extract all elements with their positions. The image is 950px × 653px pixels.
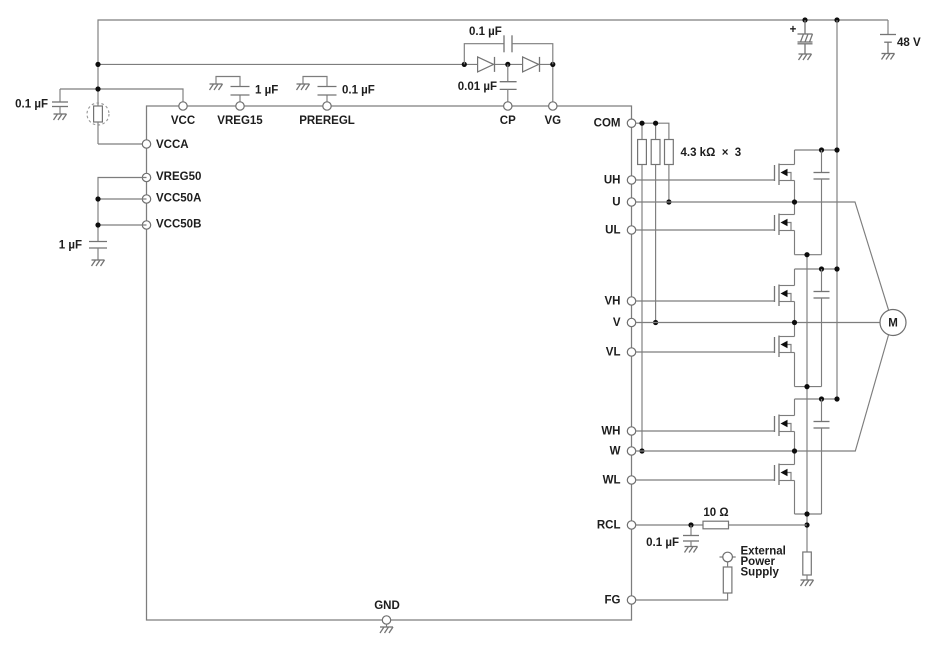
- wire WL gate: [636, 479, 775, 481]
- svg-text:0.1 µF: 0.1 µF: [469, 26, 502, 38]
- wire W bridge bottom: [795, 513, 822, 515]
- wire Q2 source drop: [794, 231, 796, 255]
- node RCL cap: [688, 522, 693, 527]
- pin VL: [627, 348, 635, 356]
- node U phase: [792, 199, 797, 204]
- pin WH: [627, 427, 635, 435]
- node V top rail: [834, 266, 839, 271]
- node W bottom bus: [804, 511, 809, 516]
- wire source return bus: [806, 255, 808, 552]
- svg-text:GND: GND: [374, 600, 400, 612]
- capacitor W bridge snubber: [814, 399, 830, 514]
- pin VREG50: [142, 173, 150, 181]
- pin RCL: [627, 521, 635, 529]
- wire Q6 drain riser: [794, 451, 796, 465]
- node diode 1 anode: [462, 62, 467, 67]
- battery 48 V: [880, 20, 921, 54]
- node U top rail: [834, 147, 839, 152]
- svg-text:M: M: [888, 318, 898, 330]
- pin FG: [627, 596, 635, 604]
- svg-text:VREG50: VREG50: [156, 171, 201, 183]
- wire resistor C lead to U: [668, 165, 670, 203]
- svg-text:VCC50A: VCC50A: [156, 193, 201, 205]
- wire UH gate: [636, 179, 775, 181]
- node V top cap: [819, 266, 824, 271]
- resistor 4.3k B (to V): [651, 140, 660, 165]
- node U top cap: [819, 147, 824, 152]
- wire VH gate: [636, 300, 775, 302]
- ferrite bead (dashed option) on VCCA: [87, 103, 109, 144]
- ground VREG15 cap: [210, 84, 223, 90]
- svg-text:Supply: Supply: [741, 567, 780, 579]
- svg-text:VCC: VCC: [171, 115, 195, 127]
- node resistor C on U line: [666, 199, 671, 204]
- wire Q3 drain riser: [794, 269, 796, 286]
- svg-text:VG: VG: [544, 115, 561, 127]
- ground 0.1 uF VCC: [54, 114, 67, 120]
- ground 1 uF VCC50: [92, 260, 105, 266]
- wire after diode 2 to VG riser: [539, 64, 553, 106]
- wire top supply rail: [98, 20, 888, 106]
- ground RCL cap: [685, 547, 698, 553]
- wire RCL line: [636, 524, 703, 526]
- wire V bridge top: [795, 268, 838, 270]
- pin VCCA: [142, 140, 150, 148]
- pin WL: [627, 476, 635, 484]
- wire VCC50B: [98, 224, 147, 226]
- diode D1: [478, 57, 495, 72]
- wire VCC50A: [98, 198, 147, 200]
- node COM resistor 1: [639, 121, 644, 126]
- node COM resistor 2: [653, 121, 658, 126]
- node W top rail: [834, 396, 839, 401]
- pin VCC: [179, 102, 187, 110]
- IC body outline: [147, 106, 632, 620]
- node W phase: [792, 448, 797, 453]
- ground GND pin: [380, 624, 393, 633]
- svg-text:UL: UL: [605, 225, 620, 237]
- capacitor V bridge snubber: [814, 269, 830, 387]
- ground bulk cap: [799, 54, 812, 60]
- wire resistor 2 top lead: [655, 123, 657, 139]
- wire drain supply rail: [836, 20, 838, 399]
- wire VL gate: [636, 351, 775, 353]
- node V phase: [792, 320, 797, 325]
- capacitor 0.1 uF PREREGL: [303, 77, 375, 107]
- wire third line VCC: [60, 89, 183, 106]
- svg-text:FG: FG: [605, 595, 621, 607]
- wire Q3 source drop: [794, 302, 796, 323]
- svg-text:U: U: [612, 197, 620, 209]
- wire resistor to supply circle: [727, 562, 729, 567]
- wire to VCCA pin: [98, 143, 147, 145]
- wire Q6 source drop: [794, 481, 796, 515]
- wire Q1 source drop: [794, 181, 796, 203]
- svg-text:VL: VL: [606, 347, 621, 359]
- svg-text:48 V: 48 V: [897, 37, 921, 49]
- node U bottom bus: [804, 252, 809, 257]
- wire U phase line: [636, 202, 889, 310]
- transistor Q2 U low-side: [775, 214, 795, 236]
- svg-text:0.1 µF: 0.1 µF: [646, 537, 679, 549]
- pin COM: [627, 119, 635, 127]
- svg-text:RCL: RCL: [597, 520, 621, 532]
- wire V bridge bottom: [795, 386, 822, 388]
- pin VH: [627, 297, 635, 305]
- svg-text:WH: WH: [601, 426, 620, 438]
- svg-text:PREREGL: PREREGL: [299, 115, 355, 127]
- pin PREREGL: [323, 102, 331, 110]
- pin W: [627, 447, 635, 455]
- wire Q5 source drop: [794, 432, 796, 452]
- wire W bridge top: [795, 398, 838, 400]
- capacitor 0.1 uF RCL: [646, 525, 699, 549]
- pin U: [627, 198, 635, 206]
- pin CP: [504, 102, 512, 110]
- pin VCC50B: [142, 221, 150, 229]
- svg-text:1 µF: 1 µF: [255, 85, 278, 97]
- transistor Q6 W low-side: [775, 464, 795, 486]
- svg-text:0.1 µF: 0.1 µF: [342, 85, 375, 97]
- transistor Q4 V low-side: [775, 336, 795, 358]
- svg-text:1 µF: 1 µF: [59, 240, 82, 252]
- capacitor 0.01 uF CP: [458, 64, 517, 106]
- capacitor 0.1 uF VCC: [15, 89, 68, 114]
- wire Q4 drain riser: [794, 323, 796, 337]
- wire second rail (charge pump rail): [98, 63, 478, 65]
- svg-text:CP: CP: [500, 115, 516, 127]
- wire VREG50 to bypass rail: [98, 178, 147, 242]
- svg-text:COM: COM: [594, 118, 621, 130]
- wire Q5 drain riser: [794, 399, 796, 416]
- node resistor B on V line: [653, 320, 658, 325]
- pin VREG15: [236, 102, 244, 110]
- node third line left vertical: [95, 86, 100, 91]
- node top rail / drain rail junction: [834, 17, 839, 22]
- resistor 4.3k C (to U): [665, 140, 674, 165]
- wire UL gate: [636, 229, 775, 231]
- pin GND: [382, 616, 390, 624]
- wire Q2 drain riser: [794, 202, 796, 215]
- pin UL: [627, 226, 635, 234]
- svg-text:4.3 kΩ × 3: 4.3 kΩ × 3: [681, 147, 742, 159]
- node VCC50B junction: [95, 222, 100, 227]
- node W top cap: [819, 396, 824, 401]
- external power supply terminal: [720, 552, 736, 562]
- wire RCL line right of resistor: [729, 524, 808, 526]
- node top rail / bulk cap junction: [802, 17, 807, 22]
- wire COM line: [636, 123, 669, 139]
- wire WH gate: [636, 430, 775, 432]
- node VCC50A junction: [95, 196, 100, 201]
- svg-text:W: W: [610, 446, 621, 458]
- resistor 4.3k A (to W): [638, 140, 647, 165]
- wire FG line: [636, 593, 728, 600]
- wire U bridge top: [795, 149, 838, 151]
- svg-text:VCCA: VCCA: [156, 139, 189, 151]
- capacitor 0.1 uF charge pump top: [464, 26, 553, 64]
- capacitor 1 uF VREG15: [216, 77, 278, 107]
- wire Q1 drain riser: [794, 150, 796, 165]
- motor M: [880, 310, 906, 336]
- wire resistor A lead to W: [641, 165, 643, 452]
- ground sense resistor: [801, 580, 814, 586]
- wire resistor B lead to V: [655, 165, 657, 323]
- wire V phase line: [636, 322, 880, 324]
- pin V: [627, 318, 635, 326]
- wire W phase line: [636, 335, 889, 451]
- pin VG: [549, 102, 557, 110]
- wire between diodes: [495, 63, 523, 65]
- node second rail left: [95, 62, 100, 67]
- svg-text:UH: UH: [604, 175, 621, 187]
- svg-text:0.1 µF: 0.1 µF: [15, 99, 48, 111]
- label External Power Supply: [741, 546, 786, 579]
- svg-text:V: V: [613, 317, 621, 329]
- wire Q4 source drop: [794, 353, 796, 387]
- transistor Q5 W high-side: [775, 415, 795, 437]
- svg-text:10 Ω: 10 Ω: [703, 507, 728, 519]
- svg-text:VREG15: VREG15: [217, 115, 263, 127]
- node diode 2 cathode VG: [550, 62, 555, 67]
- node diode junction CP: [505, 62, 510, 67]
- wire resistor 1 top lead: [641, 123, 643, 139]
- node V bottom bus: [804, 384, 809, 389]
- ground battery: [882, 54, 895, 60]
- capacitor bulk electrolytic (polarized): [790, 20, 813, 54]
- capacitor 1 uF VCC50: [59, 240, 107, 261]
- diode D2: [523, 57, 540, 72]
- transistor Q1 U high-side: [775, 164, 795, 186]
- svg-text:WL: WL: [603, 475, 621, 487]
- node resistor A on W line: [639, 448, 644, 453]
- capacitor U bridge snubber: [814, 150, 830, 255]
- transistor Q3 V high-side: [775, 285, 795, 307]
- svg-text:+: +: [790, 24, 797, 36]
- svg-text:VCC50B: VCC50B: [156, 219, 201, 231]
- pin UH: [627, 176, 635, 184]
- node RCL bus: [804, 522, 809, 527]
- svg-text:0.01 µF: 0.01 µF: [458, 81, 497, 93]
- svg-text:VH: VH: [605, 296, 621, 308]
- ground PREREGL cap: [297, 84, 310, 90]
- pin VCC50A: [142, 195, 150, 203]
- resistor 10 ohm: [703, 521, 729, 529]
- wire U bridge bottom: [795, 254, 822, 256]
- resistor current sense: [803, 552, 812, 580]
- resistor external pull-up: [723, 567, 732, 593]
